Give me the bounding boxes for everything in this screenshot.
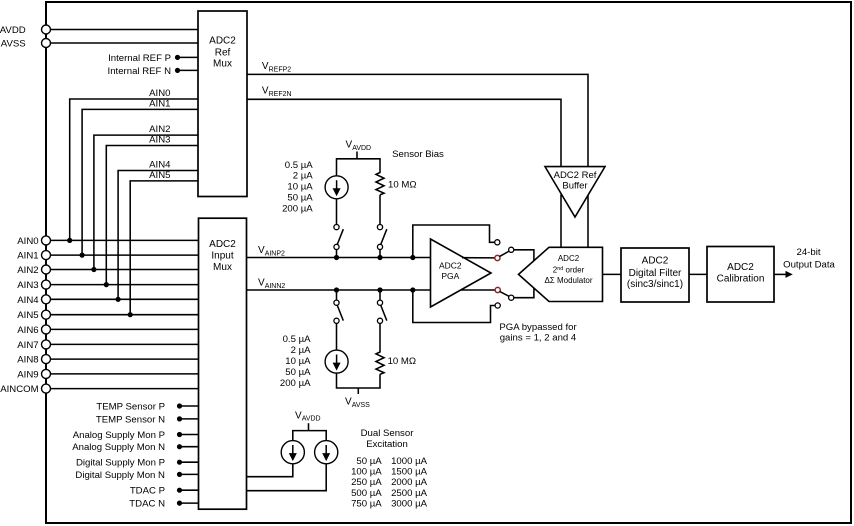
wire AIN9 to input mux (46, 373, 199, 375)
terminal AIN6 (17, 325, 50, 336)
junction dot AIN0 (67, 238, 72, 243)
switch contact PGA out P (495, 255, 500, 260)
junction dot AIN3 (104, 282, 109, 287)
svg-text:Digital Supply Mon N: Digital Supply Mon N (75, 470, 165, 481)
svg-text:Input: Input (211, 251, 233, 262)
svg-text:TDAC P: TDAC P (130, 486, 165, 497)
wire AIN2 to input mux (46, 269, 199, 271)
ADC2 Ref Mux U1 (198, 11, 247, 197)
op-amp ADC2 Ref Buffer (545, 167, 605, 217)
svg-text:AIN2: AIN2 (17, 265, 38, 276)
ADC2 Input Mux U2 (199, 218, 247, 509)
wire excitation top rail (293, 431, 326, 441)
switch pole N (509, 295, 514, 300)
wire modulator to digital filter (603, 273, 622, 275)
wire AIN4 riser to ref mux (118, 160, 198, 300)
svg-text:AVDD: AVDD (0, 25, 26, 36)
svg-text:1500 µA: 1500 µA (391, 467, 428, 478)
node TDAC N (129, 499, 198, 510)
svg-text:2 µA: 2 µA (291, 345, 312, 356)
junction dot S4 on AINN2 (377, 287, 382, 292)
wire switch S3 to current source I2 (336, 323, 338, 350)
wire AVSS to ref mux (46, 42, 198, 44)
terminal AIN4 (17, 295, 50, 306)
svg-text:Ref: Ref (215, 47, 231, 58)
node Internal REF N (108, 66, 198, 77)
svg-text:AIN6: AIN6 (17, 325, 38, 336)
svg-text:Digital Filter: Digital Filter (629, 268, 682, 279)
svg-text:AIN5: AIN5 (17, 310, 38, 321)
switch pole P (509, 247, 514, 252)
svg-text:AVSS: AVSS (1, 39, 26, 50)
label PGA bypassed note (499, 322, 577, 343)
junction dot AIN1 (80, 253, 85, 258)
op-amp ADC2 PGA (431, 239, 492, 307)
switch arm N (500, 291, 510, 296)
junction dot AIN2 (91, 267, 96, 272)
terminal AIN8 (17, 355, 50, 366)
svg-text:AIN2: AIN2 (149, 124, 170, 135)
node TDAC P (130, 486, 199, 497)
wire AIN5 riser to ref mux (130, 170, 198, 315)
svg-text:AIN1: AIN1 (149, 98, 170, 109)
node Digital Supply Mon P (76, 458, 199, 469)
current source I3 (281, 441, 304, 464)
wire AIN3 riser to ref mux (106, 135, 198, 285)
svg-text:Internal REF P: Internal REF P (108, 53, 171, 64)
wire AIN4 to input mux (46, 298, 199, 300)
junction dot bypass top (410, 255, 415, 260)
wire excitation VAVDD stub (308, 423, 310, 430)
node TEMP Sensor N (96, 414, 199, 425)
wire current source to switch S1 (336, 199, 338, 225)
wire AIN3 to input mux (46, 284, 199, 286)
label bias currents top (282, 160, 313, 215)
switch contact PGA out N (495, 287, 500, 292)
wire AIN1 riser to ref mux (82, 98, 198, 255)
node Analog Supply Mon N (72, 442, 198, 453)
terminal AIN1 (17, 251, 50, 262)
svg-text:ADC2: ADC2 (209, 239, 236, 250)
svg-text:0.5 µA: 0.5 µA (285, 160, 314, 171)
svg-text:AIN3: AIN3 (17, 280, 38, 291)
svg-text:24-bit: 24-bit (797, 247, 821, 258)
terminal AIN3 (17, 280, 50, 291)
svg-text:2000 µA: 2000 µA (391, 477, 428, 488)
svg-text:AINP2: AINP2 (265, 250, 285, 257)
wire AIN2 riser to ref mux (94, 124, 198, 269)
wire AIN0 to input mux (46, 239, 199, 241)
wire VREFP2 net (247, 61, 588, 167)
svg-text:ADC2: ADC2 (209, 36, 236, 47)
svg-text:10 MΩ: 10 MΩ (388, 356, 417, 367)
svg-text:Calibration: Calibration (717, 274, 765, 285)
svg-text:AIN8: AIN8 (17, 355, 38, 366)
junction dot S1 on AINP2 (334, 255, 339, 260)
svg-text:1000 µA: 1000 µA (391, 456, 428, 467)
wire VAINN2 net (247, 278, 431, 291)
svg-text:Internal REF N: Internal REF N (108, 66, 172, 77)
svg-text:500 µA: 500 µA (351, 488, 382, 499)
svg-text:ADC2: ADC2 (642, 256, 669, 267)
svg-text:TDAC N: TDAC N (129, 499, 165, 510)
svg-text:AIN1: AIN1 (17, 251, 38, 262)
switch arm P (499, 251, 509, 257)
terminal AIN0 (17, 236, 50, 247)
terminal AIN2 (17, 265, 50, 276)
svg-text:(sinc3/sinc1): (sinc3/sinc1) (627, 279, 683, 290)
svg-text:Mux: Mux (213, 59, 232, 70)
junction dot AIN4 (116, 297, 121, 302)
wire switch S4 to resistor R2 (379, 323, 381, 350)
terminal AIN9 (17, 369, 50, 380)
svg-text:50 µA: 50 µA (285, 367, 311, 378)
wire AVDD to ref mux (46, 29, 198, 31)
wire PGA bypass top (413, 225, 495, 258)
svg-text:2 µA: 2 µA (293, 171, 314, 182)
wire PGA bypass bottom (413, 290, 495, 323)
svg-text:REF2N: REF2N (269, 91, 292, 98)
svg-text:10 MΩ: 10 MΩ (388, 180, 417, 191)
switch contact bypass P (495, 240, 500, 245)
node Analog Supply Mon P (73, 430, 199, 441)
svg-text:AVDD: AVDD (352, 145, 371, 152)
switch S3 (334, 290, 343, 323)
wire AINCOM to input mux (46, 388, 199, 390)
block ADC2 Calibration (707, 247, 774, 303)
svg-text:10 µA: 10 µA (287, 182, 313, 193)
svg-text:AVDD: AVDD (302, 416, 321, 423)
svg-text:750 µA: 750 µA (351, 498, 382, 509)
node Digital Supply Mon N (75, 470, 198, 481)
wire ref buffer to modulator left (560, 195, 562, 248)
label excitation currents column 2 (391, 456, 428, 509)
svg-text:100 µA: 100 µA (351, 467, 382, 478)
svg-text:REFP2: REFP2 (269, 66, 292, 73)
wire AIN5 to input mux (46, 314, 199, 316)
wire PGA output tap N (461, 289, 496, 291)
svg-text:Output Data: Output Data (783, 259, 835, 270)
label Dual Sensor Excitation (361, 428, 415, 450)
svg-text:ADC2: ADC2 (558, 254, 580, 263)
svg-text:200 µA: 200 µA (280, 378, 311, 389)
wire PGA output tap P (462, 257, 495, 259)
node Internal REF P (108, 53, 198, 64)
svg-text:50 µA: 50 µA (287, 193, 313, 204)
wire AIN0 riser to ref mux (70, 88, 198, 240)
svg-text:Mux: Mux (213, 262, 232, 273)
switch S4 (377, 290, 386, 323)
svg-text:250 µA: 250 µA (351, 477, 382, 488)
wire VAVDD stub (356, 152, 358, 159)
node TEMP Sensor P (96, 402, 198, 413)
svg-text:AINN2: AINN2 (265, 283, 286, 290)
svg-text:TEMP Sensor N: TEMP Sensor N (96, 414, 165, 425)
svg-text:AIN0: AIN0 (17, 236, 38, 247)
svg-text:0.5 µA: 0.5 µA (283, 334, 312, 345)
terminal AINCOM (0, 384, 50, 395)
wire VAINP2 net (247, 245, 431, 258)
wire ref buffer to modulator right (587, 196, 589, 248)
junction dot AIN5 (128, 312, 133, 317)
current source I2 (325, 350, 348, 373)
svg-text:Analog Supply Mon P: Analog Supply Mon P (73, 430, 165, 441)
wire sensor bias bottom rail (337, 373, 381, 388)
svg-text:AIN3: AIN3 (149, 135, 170, 146)
wire I3 to input mux (247, 464, 293, 477)
switch contact bypass N (495, 303, 500, 308)
wire I4 to input mux (247, 464, 327, 491)
svg-text:50 µA: 50 µA (356, 456, 382, 467)
wire AIN6 to input mux (46, 328, 199, 330)
svg-text:2500 µA: 2500 µA (391, 488, 428, 499)
resistor R1 10 Mohm (376, 171, 417, 195)
svg-text:AIN5: AIN5 (149, 170, 170, 181)
wire output data arrow (774, 247, 836, 278)
switch S1 (334, 225, 343, 258)
terminal AVDD (0, 25, 51, 36)
resistor R2 10 Mohm (376, 351, 416, 375)
terminal AIN7 (17, 340, 50, 351)
wire digital filter to calibration (689, 273, 707, 275)
junction dot S3 on AINN2 (334, 287, 339, 292)
current source I1 (325, 176, 348, 199)
junction dot bypass bottom (410, 287, 415, 292)
terminal AVSS (1, 39, 51, 50)
wire sensor bias top rail (337, 159, 381, 176)
svg-text:AIN4: AIN4 (149, 160, 171, 171)
svg-text:3000 µA: 3000 µA (391, 498, 428, 509)
svg-text:200 µA: 200 µA (282, 203, 313, 214)
svg-text:Digital Supply Mon P: Digital Supply Mon P (76, 458, 165, 469)
svg-text:Excitation: Excitation (366, 439, 408, 450)
wire VREF2N net (247, 86, 561, 167)
wire VAVSS stub (357, 388, 359, 394)
svg-text:AIN4: AIN4 (17, 295, 39, 306)
switch S2 (377, 225, 386, 258)
label excitation currents column 1 (351, 456, 382, 509)
junction dot S2 on AINP2 (377, 255, 382, 260)
svg-text:AVSS: AVSS (352, 402, 370, 409)
svg-text:ADC2: ADC2 (439, 261, 462, 271)
terminal AIN5 (17, 310, 50, 321)
wire pole N to modulator (514, 288, 534, 298)
wire resistor to switch S2 (379, 195, 381, 225)
label bias currents bottom (280, 334, 311, 389)
wire AIN8 to input mux (46, 358, 199, 360)
svg-text:Sensor Bias: Sensor Bias (392, 149, 444, 160)
svg-text:PGA bypassed for: PGA bypassed for (499, 322, 577, 333)
svg-text:Dual Sensor: Dual Sensor (361, 428, 415, 439)
wire AIN7 to input mux (46, 343, 199, 345)
svg-text:AIN9: AIN9 (17, 369, 38, 380)
svg-text:ADC2: ADC2 (727, 262, 754, 273)
svg-text:10 µA: 10 µA (285, 356, 311, 367)
svg-text:Analog Supply Mon N: Analog Supply Mon N (72, 442, 165, 453)
wire AIN1 to input mux (46, 254, 199, 256)
svg-text:Buffer: Buffer (562, 180, 587, 191)
label VAVSS (345, 397, 370, 409)
label VAVDD sensor bias (346, 140, 372, 152)
svg-text:AINCOM: AINCOM (0, 384, 38, 395)
svg-text:PGA: PGA (441, 271, 459, 281)
current source I4 (315, 441, 338, 464)
wire pole P to modulator (514, 250, 534, 261)
block ADC2 2nd order delta-sigma modulator (519, 247, 603, 301)
svg-text:TEMP Sensor P: TEMP Sensor P (96, 402, 165, 413)
block ADC2 Digital Filter (621, 248, 689, 302)
svg-text:AIN7: AIN7 (17, 340, 38, 351)
svg-text:AIN0: AIN0 (149, 88, 170, 99)
svg-text:ΔΣ Modulator: ΔΣ Modulator (544, 276, 592, 285)
label VAVDD excitation (295, 410, 321, 422)
svg-text:gains = 1, 2 and 4: gains = 1, 2 and 4 (500, 332, 577, 343)
